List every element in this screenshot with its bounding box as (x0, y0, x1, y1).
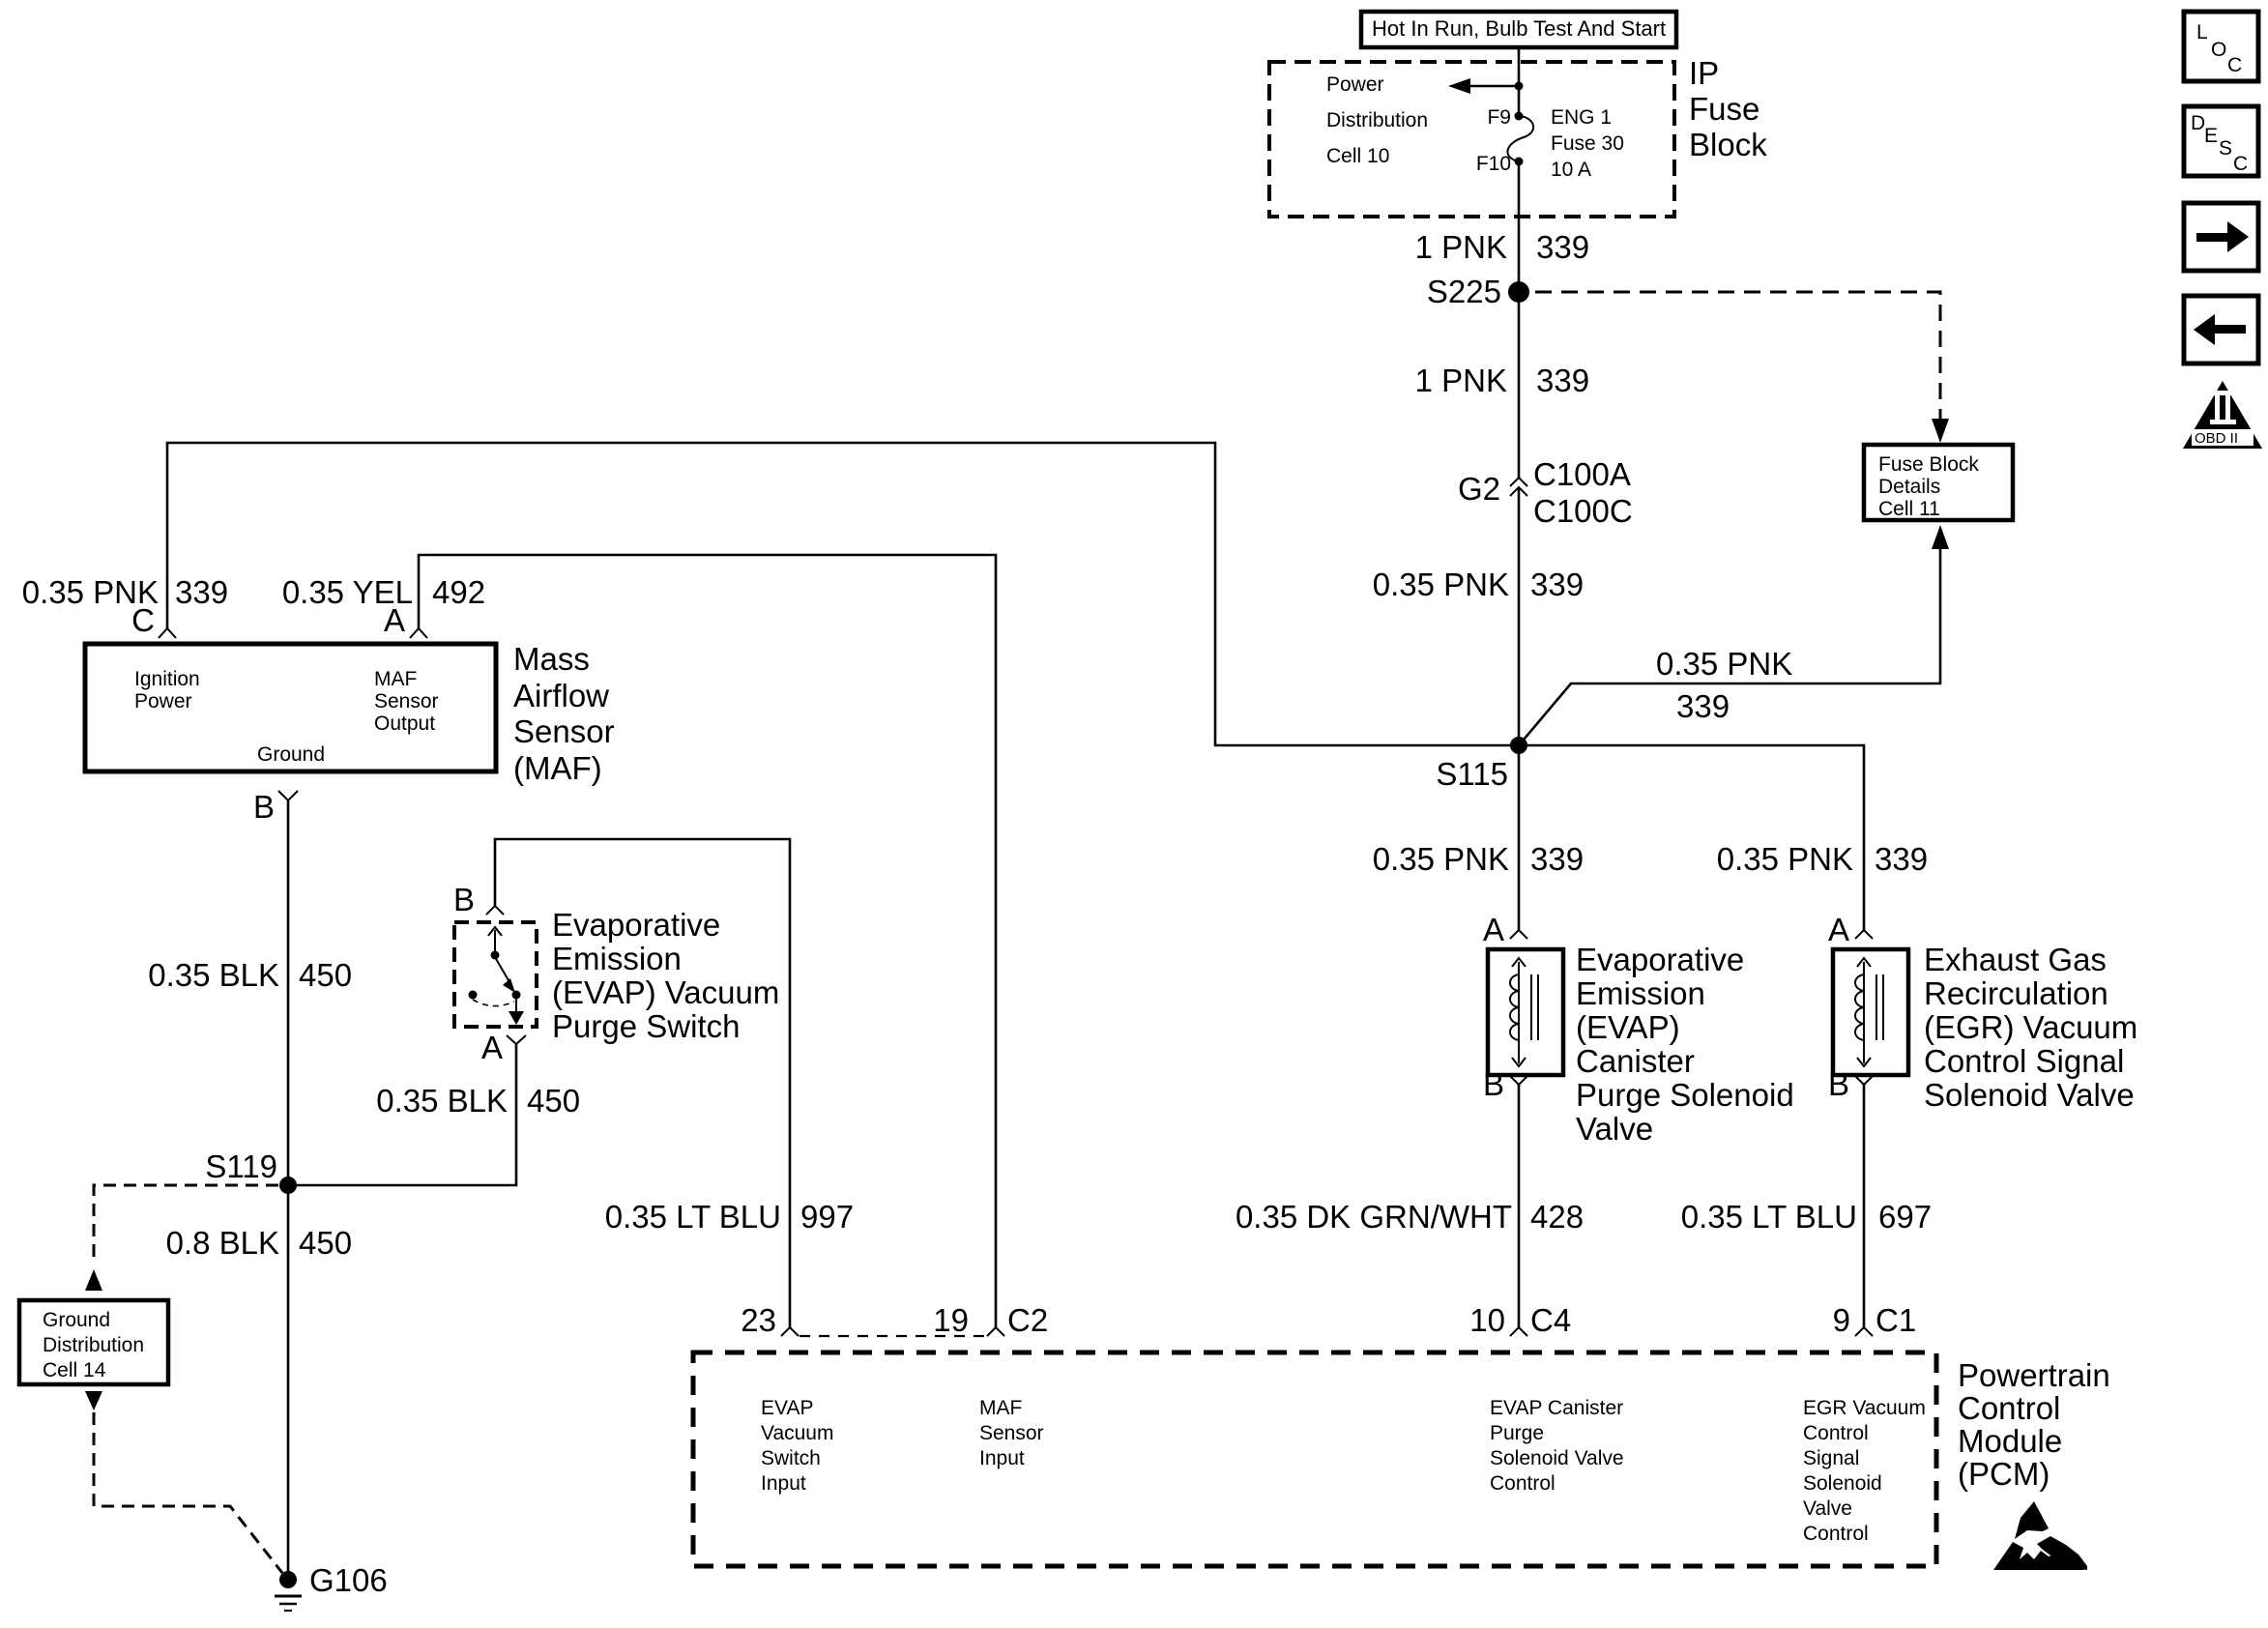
svg-text:1 PNK: 1 PNK (1415, 363, 1507, 398)
svg-text:0.35 LT BLU: 0.35 LT BLU (605, 1199, 781, 1235)
svg-text:Details: Details (1878, 476, 1940, 498)
label: 0.35 PNK 339 (EGR feed) (1717, 841, 1928, 877)
svg-text:23: 23 (741, 1302, 776, 1338)
svg-text:339: 339 (1875, 841, 1928, 877)
svg-text:Ground: Ground (43, 1309, 110, 1331)
svg-text:G2: G2 (1458, 471, 1500, 507)
svg-text:Power: Power (134, 690, 192, 712)
svg-text:Distribution: Distribution (1326, 109, 1428, 131)
switch internal: arrow up to B (488, 927, 502, 952)
label: A (switch) (481, 1030, 503, 1065)
svg-text:450: 450 (527, 1083, 580, 1119)
svg-text:(PCM): (PCM) (1958, 1456, 2050, 1492)
svg-text:Exhaust Gas: Exhaust Gas (1924, 942, 2107, 977)
svg-text:Hot In Run, Bulb Test And Star: Hot In Run, Bulb Test And Start (1372, 16, 1666, 41)
label: IP Fuse Block (1689, 55, 1767, 162)
label: Evaporative Emission (EVAP) Vacuum Purge Switch (552, 907, 779, 1044)
svg-text:F10: F10 (1476, 153, 1511, 175)
switch internal: arrow down to A (509, 997, 524, 1025)
connector: PCM pin 23 (chevron) (741, 1302, 799, 1338)
label: EVAP Canister Purge Solenoid Valve Control (1490, 1397, 1624, 1495)
component: EVAP Vacuum Purge Switch (dashed box) (454, 922, 537, 1027)
svg-text:Control: Control (1958, 1390, 2060, 1426)
svg-text:9: 9 (1833, 1302, 1850, 1338)
svg-text:Purge Switch: Purge Switch (552, 1008, 740, 1044)
node: Ground Distribution Cell 14 reference box (19, 1300, 168, 1384)
wire: 0.35 YEL 492 from MAF A pin to PCM pin 19 (419, 555, 996, 1327)
svg-text:Switch: Switch (761, 1447, 821, 1469)
svg-text:Output: Output (374, 712, 435, 735)
wire: 0.35 BLK 450 from switch A to S119 branch (288, 1044, 516, 1185)
node: splice S115 (1436, 737, 1527, 792)
wire: 1 PNK 339 from S225 to C100 (1518, 292, 1521, 478)
wire: 0.35 LT BLU 997 from switch B to PCM pin 23 (495, 839, 790, 1327)
svg-text:Mass: Mass (513, 641, 590, 677)
svg-text:S: S (2219, 137, 2232, 160)
svg-text:Control: Control (1490, 1472, 1556, 1495)
svg-text:0.8 BLK: 0.8 BLK (166, 1225, 279, 1261)
node: splice S225 (1427, 274, 1529, 309)
label: Evaporative Emission (EVAP) Canister Purge Solenoid Valve (1576, 942, 1794, 1147)
svg-text:Distribution: Distribution (43, 1334, 144, 1356)
switch internal: movable contact arm with arrowhead (495, 957, 515, 993)
svg-text:MAF: MAF (979, 1397, 1022, 1419)
connector: switch pin B (chevron) (486, 906, 504, 915)
label: A (MAF) (384, 602, 405, 638)
wire: 0.35 LT BLU 697 from EGR solenoid B to PCM pin 9 (1863, 1085, 1866, 1327)
svg-text:0.35 LT BLU: 0.35 LT BLU (1681, 1199, 1857, 1235)
label: 0.35 PNK 339 (EVAP feed) (1373, 841, 1584, 877)
svg-text:0.35 YEL: 0.35 YEL (282, 574, 413, 610)
svg-text:S119: S119 (205, 1148, 277, 1184)
IP fuse block (dashed boundary) (1269, 62, 1674, 217)
svg-text:EVAP: EVAP (761, 1397, 813, 1419)
node: Hot In Run, Bulb Test And Start label box (1361, 12, 1676, 47)
connector G2 C100A / C100C (double chevron) (1510, 478, 1527, 496)
svg-text:339: 339 (1536, 363, 1589, 398)
wire: dashed reference from box down to G106 (94, 1412, 282, 1573)
svg-text:Module: Module (1958, 1423, 2062, 1459)
svg-text:OBD II: OBD II (2195, 430, 2238, 447)
connector: EVAP solenoid pin B (Y) (1483, 1066, 1528, 1102)
svg-text:Input: Input (979, 1447, 1025, 1469)
svg-text:428: 428 (1530, 1199, 1584, 1235)
icon: LOC box (2184, 12, 2258, 81)
connector: EGR solenoid pin B (Y) (1828, 1066, 1874, 1102)
ground G106 (275, 1562, 388, 1611)
svg-text:0.35 PNK: 0.35 PNK (22, 574, 159, 610)
label: EVAP Vacuum Switch Input (761, 1397, 833, 1495)
label: 0.35 YEL 492 (282, 574, 485, 610)
svg-text:C2: C2 (1007, 1302, 1048, 1338)
svg-text:Fuse 30: Fuse 30 (1551, 132, 1624, 155)
label: 0.35 DK GRN/WHT 428 (1236, 1199, 1584, 1235)
label: C100C (1533, 493, 1633, 529)
icon: forward arrow box (2184, 203, 2258, 271)
svg-text:L: L (2196, 21, 2208, 44)
wire: 0.35 PNK 339 branch from S115 up to Fuse Block Details (1519, 525, 1949, 745)
connector: MAF pin B (Y) (278, 791, 298, 800)
wire: 0.35 PNK 339 from C100 to S115 (1518, 487, 1521, 745)
svg-text:Block: Block (1689, 127, 1767, 162)
svg-text:0.35 PNK: 0.35 PNK (1373, 567, 1509, 602)
svg-text:450: 450 (299, 1225, 352, 1261)
wire: dashed reference from S225 to Fuse Block Details (1535, 292, 1949, 443)
label: MAF Sensor Input (979, 1397, 1044, 1469)
svg-text:A: A (1828, 912, 1849, 947)
svg-text:339: 339 (1530, 567, 1584, 602)
svg-text:Cell 14: Cell 14 (43, 1359, 106, 1381)
svg-text:A: A (1483, 912, 1504, 947)
svg-text:S225: S225 (1427, 274, 1501, 309)
label: Exhaust Gas Recirculation (EGR) Vacuum Control Signal Solenoid Valve (1924, 942, 2137, 1113)
svg-text:Vacuum: Vacuum (761, 1422, 833, 1444)
svg-text:B: B (1828, 1066, 1849, 1102)
svg-text:Control: Control (1803, 1422, 1869, 1444)
svg-text:Sensor: Sensor (979, 1422, 1044, 1444)
arrow out of Ground Distribution box (down) (85, 1391, 102, 1410)
svg-text:G106: G106 (309, 1562, 388, 1598)
svg-text:1 PNK: 1 PNK (1415, 229, 1507, 265)
arrow into Ground Distribution box (up) (85, 1269, 102, 1291)
wire: 0.35 BLK 450 from MAF B to S119 (287, 800, 290, 1185)
svg-text:0.35 PNK: 0.35 PNK (1373, 841, 1509, 877)
svg-text:997: 997 (800, 1199, 854, 1235)
label: 0.35 BLK 450 (148, 957, 352, 993)
svg-text:Sensor: Sensor (374, 690, 439, 712)
wire: dashed ground distribution reference from S119 (94, 1185, 278, 1265)
label: 0.8 BLK 450 (166, 1225, 352, 1261)
switch internal: dashed travel arc (473, 1000, 514, 1006)
svg-text:Cell 11: Cell 11 (1878, 498, 1940, 520)
svg-text:A: A (481, 1030, 503, 1065)
wire: 0.35 PNK 339 from S115 down to EVAP solenoid (1518, 745, 1521, 930)
connector: switch pin A (Y) (507, 1035, 526, 1044)
switch internal: common pole dot (491, 951, 500, 960)
svg-text:0.35 PNK: 0.35 PNK (1656, 646, 1792, 682)
label: 1 PNK 339 (second) (1415, 363, 1589, 398)
svg-text:Sensor: Sensor (513, 713, 615, 749)
svg-text:Purge Solenoid: Purge Solenoid (1576, 1077, 1794, 1113)
label: B (switch) (453, 882, 475, 917)
label: C100A (1533, 456, 1631, 492)
svg-text:Signal: Signal (1803, 1447, 1859, 1469)
svg-text:Emission: Emission (1576, 975, 1705, 1011)
svg-text:D: D (2191, 112, 2205, 134)
svg-text:Evaporative: Evaporative (1576, 942, 1744, 977)
label: 0.35 LT BLU 997 (605, 1199, 854, 1235)
svg-text:B: B (453, 882, 475, 917)
node: Fuse Block Details Cell 11 reference box (1864, 445, 2013, 520)
wire: 0.8 BLK 450 from S119 to G106 (287, 1185, 290, 1580)
label: 0.35 PNK 339 (1373, 567, 1584, 602)
wire: 0.35 PNK 339 from S115 right to EGR solenoid (1519, 745, 1864, 930)
svg-text:C100C: C100C (1533, 493, 1633, 529)
connector: EGR solenoid pin A (chevron) (1828, 912, 1873, 947)
svg-text:Emission: Emission (552, 941, 682, 976)
svg-text:(MAF): (MAF) (513, 750, 602, 786)
svg-text:Input: Input (761, 1472, 806, 1495)
svg-text:697: 697 (1878, 1199, 1932, 1235)
svg-text:C: C (2227, 54, 2242, 76)
svg-text:Solenoid Valve: Solenoid Valve (1490, 1447, 1624, 1469)
svg-text:Solenoid: Solenoid (1803, 1472, 1882, 1495)
label: 0.35 PNK / 339 (branch) (1656, 646, 1792, 724)
svg-text:Valve: Valve (1576, 1111, 1653, 1147)
node: junction dot at arrow branch (1515, 82, 1524, 91)
svg-text:492: 492 (432, 574, 485, 610)
svg-text:339: 339 (1530, 841, 1584, 877)
node: fuse terminal F9 (1487, 106, 1523, 129)
svg-text:0.35 DK GRN/WHT: 0.35 DK GRN/WHT (1236, 1199, 1512, 1235)
svg-text:C100A: C100A (1533, 456, 1631, 492)
wire: 0.35 DK GRN/WHT 428 from EVAP solenoid B to PCM pin 10 (1518, 1085, 1521, 1327)
svg-text:S115: S115 (1436, 756, 1508, 792)
svg-text:EVAP Canister: EVAP Canister (1490, 1397, 1623, 1419)
svg-text:C4: C4 (1530, 1302, 1571, 1338)
svg-text:0.35 PNK: 0.35 PNK (1717, 841, 1853, 877)
svg-text:339: 339 (1536, 229, 1589, 265)
svg-text:B: B (253, 789, 275, 825)
svg-text:Recirculation: Recirculation (1924, 975, 2108, 1011)
svg-text:0.35 BLK: 0.35 BLK (376, 1083, 508, 1119)
svg-text:339: 339 (175, 574, 228, 610)
svg-text:(EGR) Vacuum: (EGR) Vacuum (1924, 1009, 2137, 1045)
svg-text:E: E (2204, 125, 2218, 147)
label: Mass Airflow Sensor (MAF) (513, 641, 615, 786)
svg-text:Power: Power (1326, 73, 1384, 96)
label: Power Distribution Cell 10 (1326, 73, 1428, 167)
ESD sensitivity symbol (1993, 1501, 2087, 1570)
svg-text:Powertrain: Powertrain (1958, 1357, 2110, 1393)
svg-text:Canister: Canister (1576, 1043, 1695, 1079)
svg-text:(EVAP) Vacuum: (EVAP) Vacuum (552, 974, 779, 1010)
component: EVAP Canister Purge Solenoid Valve (1488, 949, 1563, 1075)
svg-text:MAF: MAF (374, 668, 417, 690)
icon: DESC box (2184, 106, 2258, 176)
connector: MAF pin C (chevron) (159, 628, 176, 638)
connector: EVAP solenoid pin A (chevron) (1483, 912, 1527, 947)
label: 0.35 LT BLU 697 (1681, 1199, 1932, 1235)
svg-text:Control Signal: Control Signal (1924, 1043, 2124, 1079)
component: Powertrain Control Module (dashed box) (693, 1352, 1936, 1566)
label: G2 (1458, 471, 1500, 507)
label: 0.35 PNK 339 (MAF feed) (22, 574, 228, 610)
label: Ignition Power (134, 668, 200, 712)
svg-text:IP: IP (1689, 55, 1719, 91)
connector: MAF pin A (chevron) (410, 628, 427, 638)
svg-text:10 A: 10 A (1551, 159, 1591, 181)
svg-text:O: O (2211, 39, 2226, 61)
connector: PCM pin 10 (chevron) (1469, 1302, 1571, 1338)
label: ENG 1 Fuse 30 10 A (1551, 106, 1624, 181)
switch internal: open contact dot (469, 991, 478, 1000)
wire: battery feed from Hot In Run into fuse block (1518, 47, 1521, 116)
svg-text:EGR Vacuum: EGR Vacuum (1803, 1397, 1926, 1419)
svg-text:Ground: Ground (257, 743, 325, 766)
svg-text:Airflow: Airflow (513, 678, 609, 713)
connector: PCM pin 19 (chevron) (933, 1302, 1048, 1338)
svg-text:Evaporative: Evaporative (552, 907, 720, 943)
svg-text:C1: C1 (1875, 1302, 1916, 1338)
svg-text:Purge: Purge (1490, 1422, 1544, 1444)
node: fuse terminal F10 (1476, 153, 1524, 175)
svg-text:F9: F9 (1487, 106, 1511, 129)
label: B (MAF) (253, 789, 275, 825)
svg-text:Ignition: Ignition (134, 668, 200, 690)
svg-text:Fuse: Fuse (1689, 91, 1759, 127)
label: EGR Vacuum Control Signal Solenoid Valve Control (1803, 1397, 1926, 1545)
svg-text:Valve: Valve (1803, 1497, 1852, 1520)
icon: OBD II triangle (2183, 381, 2262, 449)
icon: back arrow box (2184, 296, 2258, 363)
svg-text:Solenoid Valve: Solenoid Valve (1924, 1077, 2135, 1113)
wire: 0.35 PNK 339 from S115 left and up to MAF C pin (167, 443, 1519, 745)
node: splice S119 (205, 1148, 297, 1194)
svg-text:Fuse Block: Fuse Block (1878, 453, 1979, 476)
label: Ground (257, 743, 325, 766)
switch internal: contact dot at A (512, 991, 521, 1000)
svg-text:C: C (2233, 153, 2248, 175)
label: 1 PNK 339 (1415, 229, 1589, 265)
label: C (131, 602, 155, 638)
wire: arrow branch to Power Distribution (1448, 78, 1519, 94)
label: 0.35 BLK 450 (switch) (376, 1083, 580, 1119)
label: MAF Sensor Output (374, 668, 439, 735)
label: Powertrain Control Module (PCM) (1958, 1357, 2110, 1492)
wire: 1 PNK 339 from F10 to S225 (1518, 161, 1521, 292)
svg-text:19: 19 (933, 1302, 969, 1338)
fuse ENG 1 Fuse 30 10 A (element) (1507, 116, 1533, 161)
component: Mass Airflow Sensor (MAF) box (85, 644, 496, 771)
wire: dashed connector line between pins 23 and 19 (800, 1335, 986, 1337)
component: EGR Vacuum Control Signal Solenoid Valve (1833, 949, 1908, 1075)
svg-text:ENG 1: ENG 1 (1551, 106, 1612, 129)
svg-text:Control: Control (1803, 1523, 1869, 1545)
connector: PCM pin 9 (chevron) (1833, 1302, 1917, 1338)
svg-text:Cell 10: Cell 10 (1326, 145, 1389, 167)
svg-text:10: 10 (1469, 1302, 1505, 1338)
svg-text:450: 450 (299, 957, 352, 993)
svg-text:B: B (1483, 1066, 1504, 1102)
svg-text:0.35 BLK: 0.35 BLK (148, 957, 279, 993)
svg-text:(EVAP): (EVAP) (1576, 1009, 1680, 1045)
svg-text:339: 339 (1676, 688, 1730, 724)
